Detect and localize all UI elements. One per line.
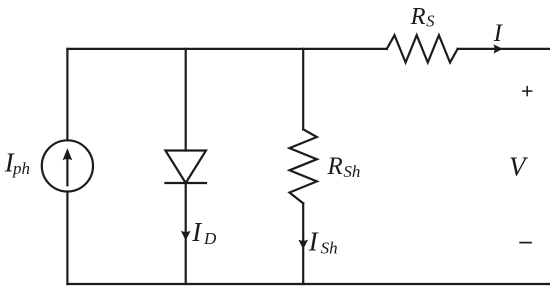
wire top left segment [67,48,386,50]
current arrow ISh [298,240,308,250]
wire left vertical upper [66,49,68,140]
resistor RS zigzag [387,35,458,62]
svg-text:I: I [191,217,203,247]
wire top right segment [458,48,550,50]
wire bottom [67,283,550,285]
wire diode branch upper [185,49,187,151]
svg-text:R: R [327,153,343,180]
svg-text:Sh: Sh [321,238,338,257]
resistor RSh zigzag [290,129,317,203]
wire shunt branch upper [302,49,304,129]
wire left vertical lower [66,192,68,285]
wire diode branch lower [185,183,187,284]
svg-text:I: I [308,226,320,256]
wire shunt branch lower [302,203,304,284]
current arrow ID [181,231,191,241]
svg-text:S: S [426,12,434,31]
label minus [519,242,532,244]
current source Iph arrow [66,159,68,186]
svg-text:D: D [203,229,217,248]
svg-text:R: R [410,3,426,30]
svg-text:V: V [509,152,529,182]
current source Iph circle [42,140,93,191]
svg-text:ph: ph [12,159,30,178]
diode D cathode bar [165,182,206,184]
current arrow I on output wire [493,44,502,53]
svg-text:Sh: Sh [343,162,360,181]
label plus [522,86,532,96]
diode D triangle [165,151,206,184]
svg-text:I: I [493,20,504,47]
